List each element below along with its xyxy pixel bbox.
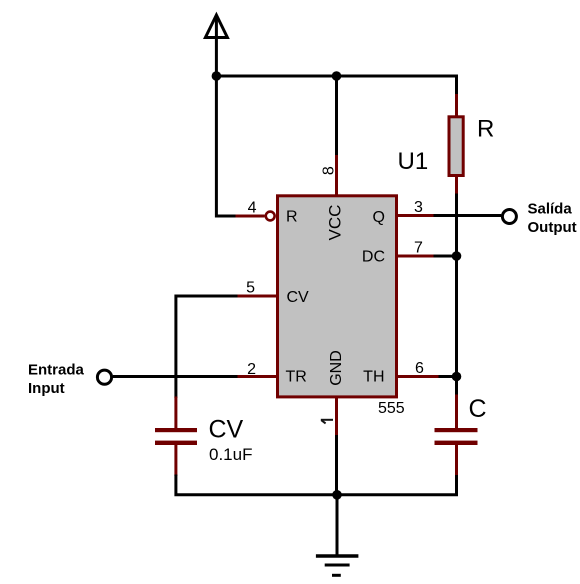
svg-text:Output: Output	[528, 219, 577, 236]
resistor R1 pin stub top	[455, 94, 458, 117]
svg-text:3: 3	[414, 199, 423, 216]
svg-text:Q: Q	[373, 209, 385, 226]
wire: resistor bottom down right vertical	[455, 194, 458, 397]
svg-text:R: R	[286, 209, 298, 226]
wire: pin 6 to right vertical	[439, 375, 457, 378]
capacitor CV stub top (red)	[174, 397, 177, 430]
wire: pin 7 to right vertical	[434, 255, 457, 258]
pin 5 stub (red)	[237, 295, 278, 298]
IC U1 555 body	[278, 196, 397, 397]
capacitor CV stub bottom (red)	[174, 444, 177, 476]
pin 7 stub (red)	[397, 255, 435, 258]
pin 4 inversion bubble	[266, 212, 275, 221]
pin 8 stub (red)	[335, 155, 338, 196]
wire: ground stem	[336, 495, 339, 556]
svg-text:Salída: Salída	[528, 201, 573, 218]
svg-text:DC: DC	[362, 248, 385, 265]
svg-text:2: 2	[247, 361, 256, 378]
wire: left branch down to pin 4	[216, 76, 236, 216]
pin 4 stub (red)	[236, 215, 265, 218]
svg-text:8: 8	[321, 166, 338, 175]
svg-text:TR: TR	[286, 368, 307, 385]
junction dot at VCC arrow	[212, 71, 222, 81]
wire: pin 3 to output terminal	[434, 214, 502, 217]
resistor R1 pin stub bottom	[455, 176, 458, 196]
pin number 1 (rotated)	[321, 420, 333, 424]
output terminal circle	[502, 210, 516, 224]
svg-text:C: C	[469, 395, 487, 423]
capacitor C stub bottom (red)	[455, 444, 458, 477]
wire: CV capacitor to bottom rail	[176, 475, 337, 495]
wire: C capacitor to bottom rail	[337, 475, 457, 495]
svg-text:7: 7	[414, 239, 423, 256]
svg-text:Entrada: Entrada	[28, 362, 85, 379]
svg-text:CV: CV	[209, 416, 244, 444]
capacitor CV plates	[155, 428, 197, 445]
pin 2 stub (red)	[237, 375, 278, 378]
svg-text:CV: CV	[287, 289, 310, 306]
pin 3 stub (red)	[397, 214, 435, 217]
resistor R body	[449, 117, 463, 176]
svg-text:0.1uF: 0.1uF	[209, 445, 252, 464]
junction dot bottom rail	[332, 490, 342, 500]
VCC power symbol arrow	[205, 15, 227, 76]
svg-text:R: R	[477, 115, 494, 142]
svg-text:555: 555	[378, 400, 405, 417]
svg-text:6: 6	[415, 360, 424, 377]
junction dot pin 7	[452, 251, 462, 261]
wire: pin 1 down to ground rail	[335, 435, 338, 495]
pin 1 stub (red)	[335, 396, 338, 437]
svg-text:GND: GND	[328, 350, 345, 386]
ground symbol	[316, 556, 359, 575]
junction dot above pin 8	[332, 71, 342, 81]
pin 6 stub (red)	[397, 375, 440, 378]
svg-text:U1: U1	[398, 148, 429, 175]
input terminal circle	[97, 370, 111, 384]
capacitor C plates	[435, 428, 478, 445]
wire: pin 5 left and down to CV capacitor	[176, 296, 238, 398]
svg-text:VCC: VCC	[326, 205, 345, 241]
capacitor C stub top (red)	[455, 395, 458, 430]
wire: top VCC rail	[216, 76, 456, 95]
svg-text:4: 4	[248, 199, 257, 216]
svg-text:TH: TH	[363, 369, 384, 386]
svg-text:Input: Input	[28, 380, 65, 397]
wire: input terminal to pin 2	[113, 375, 238, 378]
junction dot pin 6	[452, 372, 462, 382]
svg-text:5: 5	[246, 279, 255, 296]
wire: rail down to pin 8	[335, 76, 338, 156]
